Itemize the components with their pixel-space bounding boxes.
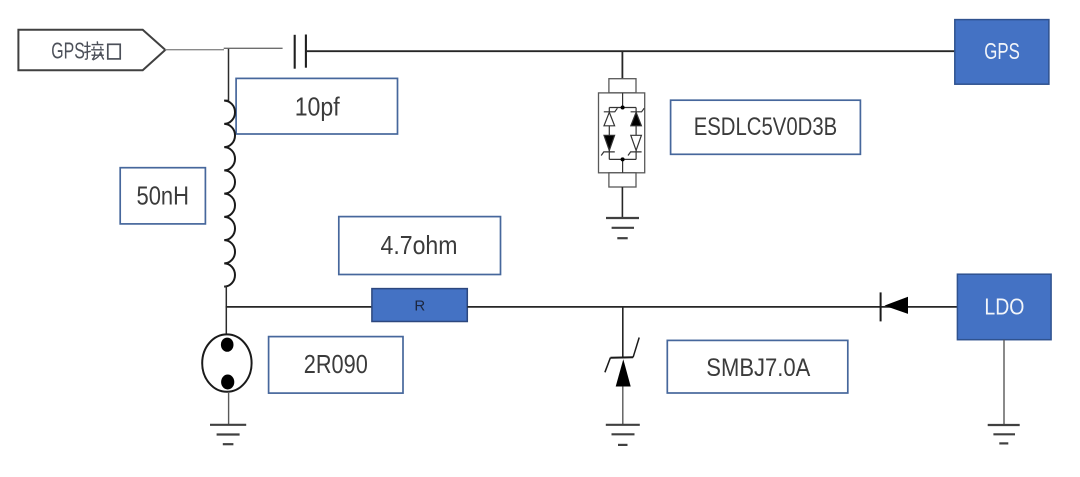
wire middle junction down to TVS — [622, 307, 624, 358]
svg-text:SMBJ7.0A: SMBJ7.0A — [706, 354, 810, 382]
svg-text:GPS: GPS — [51, 38, 85, 64]
wire from junction to capacitor — [224, 47, 283, 49]
connector flag GPS接口 — [18, 30, 165, 71]
wire from connector to junction — [165, 49, 224, 51]
block GPS — [955, 20, 1049, 85]
label box 10pf — [236, 78, 397, 134]
resistor R (blue box) — [372, 289, 467, 322]
diode D1 (series, pointing left) — [881, 292, 908, 321]
ESD diode array ESDLC5V0D3B — [599, 79, 645, 187]
svg-text:ESDLC5V0D3B: ESDLC5V0D3B — [694, 113, 838, 141]
svg-text:R: R — [414, 298, 425, 315]
wire inductor bottom through junction to 2R090 — [224, 286, 226, 335]
svg-text:GPS: GPS — [984, 38, 1020, 64]
wire LDO to ground — [1003, 340, 1005, 424]
wire vertical drop to inductor — [224, 49, 229, 101]
ground under ESD array — [606, 218, 639, 238]
svg-text:4.7ohm: 4.7ohm — [381, 230, 458, 260]
svg-text:10pf: 10pf — [295, 91, 341, 121]
capacitor C1 plates — [295, 35, 306, 69]
label box 2R090 — [269, 337, 403, 394]
wire resistor to LDO (through TVS junction and diode) — [467, 306, 957, 308]
block LDO — [957, 274, 1051, 340]
TVS zener diode SMBJ7.0A — [605, 338, 639, 387]
right branch: top filled up diode — [628, 108, 644, 155]
component 2R090 (circle with dots) — [202, 334, 251, 391]
label box ESDLC5V0D3B — [671, 100, 861, 154]
label box SMBJ7.0A — [667, 340, 848, 393]
svg-text:2R090: 2R090 — [304, 349, 368, 379]
ground under LDO — [988, 425, 1020, 443]
left branch: top hollow up diode — [601, 108, 617, 155]
wire 2R090 to ground — [228, 392, 230, 425]
label box 4.7ohm — [339, 217, 501, 275]
inductor L1 coil — [224, 101, 235, 287]
ground under 2R090 — [210, 425, 246, 444]
wire capacitor to GPS block — [307, 50, 955, 52]
wire TVS to ground — [622, 386, 624, 424]
label box 50nH — [120, 168, 205, 224]
wire junction to resistor R — [226, 306, 372, 308]
wire top junction down to ESD array — [621, 51, 623, 78]
svg-text:50nH: 50nH — [137, 180, 190, 210]
ground under TVS — [606, 425, 640, 445]
wire ESD array to ground — [621, 187, 623, 218]
svg-text:LDO: LDO — [984, 294, 1024, 320]
